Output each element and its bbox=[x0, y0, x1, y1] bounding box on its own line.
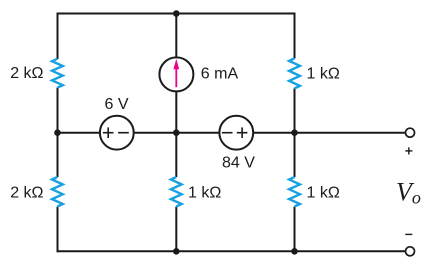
wire left lower bbox=[57, 207, 59, 253]
wire center upper bbox=[175, 13, 177, 58]
voltage source 6 V bbox=[100, 116, 134, 150]
resistor 1 kOhm bottom-center bbox=[171, 177, 182, 207]
resistor 2 kOhm top-left bbox=[52, 59, 63, 88]
wire left upper bbox=[57, 13, 59, 60]
wire bottom bbox=[58, 250, 406, 252]
junction node bottom-right bbox=[291, 248, 298, 255]
terminal output negative bbox=[406, 247, 415, 256]
junction node bottom-center bbox=[173, 248, 180, 255]
wire right middle bbox=[294, 88, 296, 177]
polarity plus sign bbox=[405, 147, 412, 154]
wire top bbox=[58, 13, 295, 15]
svg-text:1 kΩ: 1 kΩ bbox=[188, 184, 221, 201]
resistor 1 kOhm top-right bbox=[289, 58, 300, 88]
junction node mid-right bbox=[291, 129, 298, 136]
polarity minus sign bbox=[405, 233, 412, 235]
wire mid-horizontal left bbox=[58, 132, 100, 134]
svg-text:1 kΩ: 1 kΩ bbox=[307, 66, 340, 83]
svg-text:2 kΩ: 2 kΩ bbox=[10, 65, 43, 82]
svg-text:Vo: Vo bbox=[396, 178, 421, 208]
current source 6 mA bbox=[159, 57, 193, 91]
junction node mid-center bbox=[173, 129, 180, 136]
junction node mid-left bbox=[54, 129, 61, 136]
resistor 1 kOhm bottom-right bbox=[289, 177, 300, 207]
wire mid-horizontal center bbox=[134, 132, 220, 134]
svg-text:6 V: 6 V bbox=[104, 96, 128, 113]
wire left middle bbox=[57, 88, 59, 177]
svg-text:6 mA: 6 mA bbox=[201, 65, 239, 82]
svg-text:1 kΩ: 1 kΩ bbox=[307, 184, 340, 201]
wire center middle bbox=[175, 91, 177, 177]
resistor 2 kOhm bottom-left bbox=[52, 177, 63, 207]
wire right upper bbox=[294, 13, 296, 59]
wire center lower bbox=[175, 207, 177, 253]
voltage source 84 V bbox=[219, 116, 253, 150]
junction node top-center bbox=[173, 10, 180, 17]
wire mid-horizontal right bbox=[253, 132, 405, 134]
svg-text:2 kΩ: 2 kΩ bbox=[10, 184, 43, 201]
terminal output positive bbox=[406, 128, 415, 137]
wire right lower bbox=[294, 207, 296, 253]
svg-text:84 V: 84 V bbox=[222, 155, 255, 172]
